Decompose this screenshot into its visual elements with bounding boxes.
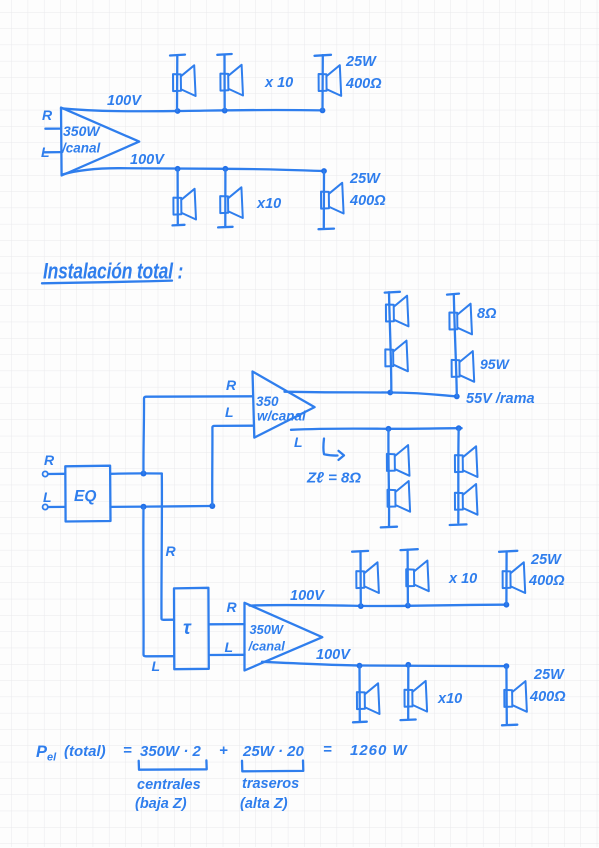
speaker chain MA top tick xyxy=(385,291,400,294)
svg-text:+: + xyxy=(219,742,228,759)
node junction top bus x224 xyxy=(222,108,228,114)
node end 55V bus x456 xyxy=(454,394,460,400)
speaker LS6 bottom-right 25W xyxy=(319,171,344,229)
svg-text:100V: 100V xyxy=(290,588,325,604)
underbracket traseros xyxy=(242,761,303,772)
op-amp A2 350 w/canal xyxy=(253,372,315,438)
wire L input stub A1 xyxy=(45,151,62,153)
op-amp A1 350W/canal xyxy=(61,108,139,176)
svg-text:(total): (total) xyxy=(64,743,106,760)
node junction bottom bus x225 xyxy=(223,166,229,172)
node end A3 top bus x506 xyxy=(504,602,510,608)
node junction top bus x177 xyxy=(175,108,181,114)
svg-text:centrales: centrales xyxy=(137,777,201,793)
speaker chain MD bottom tick xyxy=(450,523,467,526)
wire R terminal to EQ xyxy=(48,473,65,476)
speaker BD3 25W xyxy=(502,666,527,725)
svg-text:(alta Z): (alta Z) xyxy=(240,796,288,812)
speaker MC1 xyxy=(387,445,410,476)
svg-text:25W: 25W xyxy=(345,54,377,70)
wire bottom 100V bus A1 xyxy=(63,168,325,174)
wire EQ L out across xyxy=(111,505,213,508)
svg-text:L: L xyxy=(152,658,161,674)
speaker MC2 xyxy=(388,481,411,512)
speaker BD2 xyxy=(401,665,428,720)
wire L riser up to amp A2 xyxy=(212,426,252,506)
svg-text:350W: 350W xyxy=(250,622,284,637)
svg-text:Zℓ = 8Ω: Zℓ = 8Ω xyxy=(306,470,361,487)
heading underline xyxy=(42,281,172,284)
svg-text:L: L xyxy=(225,404,234,420)
svg-text:25W: 25W xyxy=(533,667,565,683)
svg-text:R: R xyxy=(44,452,55,468)
svg-text:350W: 350W xyxy=(63,123,101,139)
svg-text:400Ω: 400Ω xyxy=(345,76,382,92)
wire top 100V bus A1 xyxy=(61,108,323,111)
speaker LS4 bottom xyxy=(173,169,197,226)
speaker chain MC bottom tick xyxy=(381,526,397,529)
wire L terminal to EQ xyxy=(48,506,65,508)
speaker BU2 xyxy=(401,549,429,605)
svg-text:L: L xyxy=(225,639,234,655)
wire top 100V bus A3 xyxy=(250,605,507,606)
wire R dropper to tau xyxy=(161,474,174,620)
svg-text:x10: x10 xyxy=(437,691,462,707)
node end top bus x322 xyxy=(320,108,326,114)
speaker chain MB top tick xyxy=(447,294,459,295)
node end bottom bus x324 xyxy=(321,168,327,174)
svg-text:τ: τ xyxy=(183,618,192,639)
block tau delay xyxy=(174,588,209,669)
node junction R x143 xyxy=(141,471,147,477)
terminal R circle xyxy=(43,471,48,476)
node junction L x212 xyxy=(209,503,215,509)
svg-text:w/canal: w/canal xyxy=(257,409,306,424)
svg-text:R: R xyxy=(42,107,53,123)
node junction A3 bottom bus x408 xyxy=(405,662,411,668)
terminal L circle xyxy=(43,504,48,509)
node junction L bus x388 xyxy=(386,426,392,432)
speaker chain MD stem xyxy=(457,428,460,523)
speaker BD1 xyxy=(353,666,380,723)
arrow L direction xyxy=(323,439,337,456)
formula Pel total xyxy=(36,741,409,764)
svg-text:R: R xyxy=(166,543,177,559)
node junction bottom bus x177 xyxy=(175,166,181,172)
arrowhead L direction xyxy=(339,451,345,460)
node junction A3 top bus x408 xyxy=(405,603,411,609)
wire bottom 100V bus A3 xyxy=(262,662,506,666)
svg-text:100V: 100V xyxy=(316,647,351,663)
svg-text:25W · 20: 25W · 20 xyxy=(242,743,305,760)
speaker MA2 xyxy=(385,341,408,372)
svg-text:R: R xyxy=(226,377,237,393)
speaker LS2 top xyxy=(217,54,243,111)
svg-text:x10: x10 xyxy=(256,196,281,212)
speaker MD2 xyxy=(455,484,478,515)
svg-text:=: = xyxy=(323,741,332,758)
svg-text:400Ω: 400Ω xyxy=(349,193,386,209)
svg-text:25W: 25W xyxy=(530,552,562,568)
svg-text:R: R xyxy=(227,599,238,615)
node end A3 bottom bus x506 xyxy=(504,663,510,669)
wire R riser up to amp A2 xyxy=(143,396,252,473)
speaker MB2 xyxy=(452,351,475,382)
svg-text:350: 350 xyxy=(256,394,279,409)
node junction A3 bottom bus x359 xyxy=(357,663,363,669)
svg-text:x 10: x 10 xyxy=(448,571,477,587)
speaker LS3 top-right 25W xyxy=(315,55,342,111)
node junction 55V bus x390 xyxy=(387,390,393,396)
svg-text:1260 W: 1260 W xyxy=(350,742,409,759)
speaker BU3 25W xyxy=(499,551,525,605)
block EQ xyxy=(65,466,110,522)
wire EQ R out to corner xyxy=(111,472,162,475)
speaker chain MA stem xyxy=(389,292,391,392)
speaker LS5 bottom xyxy=(218,169,243,228)
node junction A3 top bus x360 xyxy=(358,603,364,609)
wire 55V bus from A2 xyxy=(285,392,457,397)
svg-text:25W: 25W xyxy=(349,171,381,187)
svg-text:=: = xyxy=(123,742,132,759)
svg-text:8Ω: 8Ω xyxy=(477,306,497,322)
speaker BU1 xyxy=(352,551,379,606)
speaker LS1 top xyxy=(170,55,196,111)
speaker MB1 xyxy=(449,304,472,335)
underbracket centrales xyxy=(139,760,207,769)
node junction L x143 xyxy=(141,504,147,510)
wire L bus from A2 xyxy=(291,428,462,430)
svg-text:traseros: traseros xyxy=(242,776,299,792)
wire tau R to A3 xyxy=(209,623,245,626)
wire tau L to A3 xyxy=(210,654,245,657)
svg-text:L: L xyxy=(294,434,303,450)
svg-text:(baja Z): (baja Z) xyxy=(135,796,187,812)
op-amp A3 350W/canal xyxy=(245,603,323,671)
svg-text:/canal: /canal xyxy=(248,639,286,654)
wire L dropper to tau xyxy=(143,507,174,657)
svg-text:100V: 100V xyxy=(107,93,142,109)
svg-text:x 10: x 10 xyxy=(264,75,293,91)
svg-text:350W · 2: 350W · 2 xyxy=(140,743,202,760)
wire R input stub A1 xyxy=(45,127,61,129)
speaker MA1 xyxy=(386,296,409,327)
speaker chain MB stem xyxy=(454,294,457,396)
svg-text:400Ω: 400Ω xyxy=(529,689,566,705)
svg-text:400Ω: 400Ω xyxy=(528,573,565,589)
svg-text:55V /rama: 55V /rama xyxy=(466,391,535,407)
svg-text:/canal: /canal xyxy=(61,141,101,156)
svg-text:100V: 100V xyxy=(130,152,165,168)
svg-text:L: L xyxy=(43,489,52,505)
speaker MD1 xyxy=(455,446,478,477)
speaker chain MC stem xyxy=(387,429,390,526)
node junction L bus x458 xyxy=(456,425,462,431)
svg-text:EQ: EQ xyxy=(74,488,96,505)
svg-text:95W: 95W xyxy=(480,356,511,372)
